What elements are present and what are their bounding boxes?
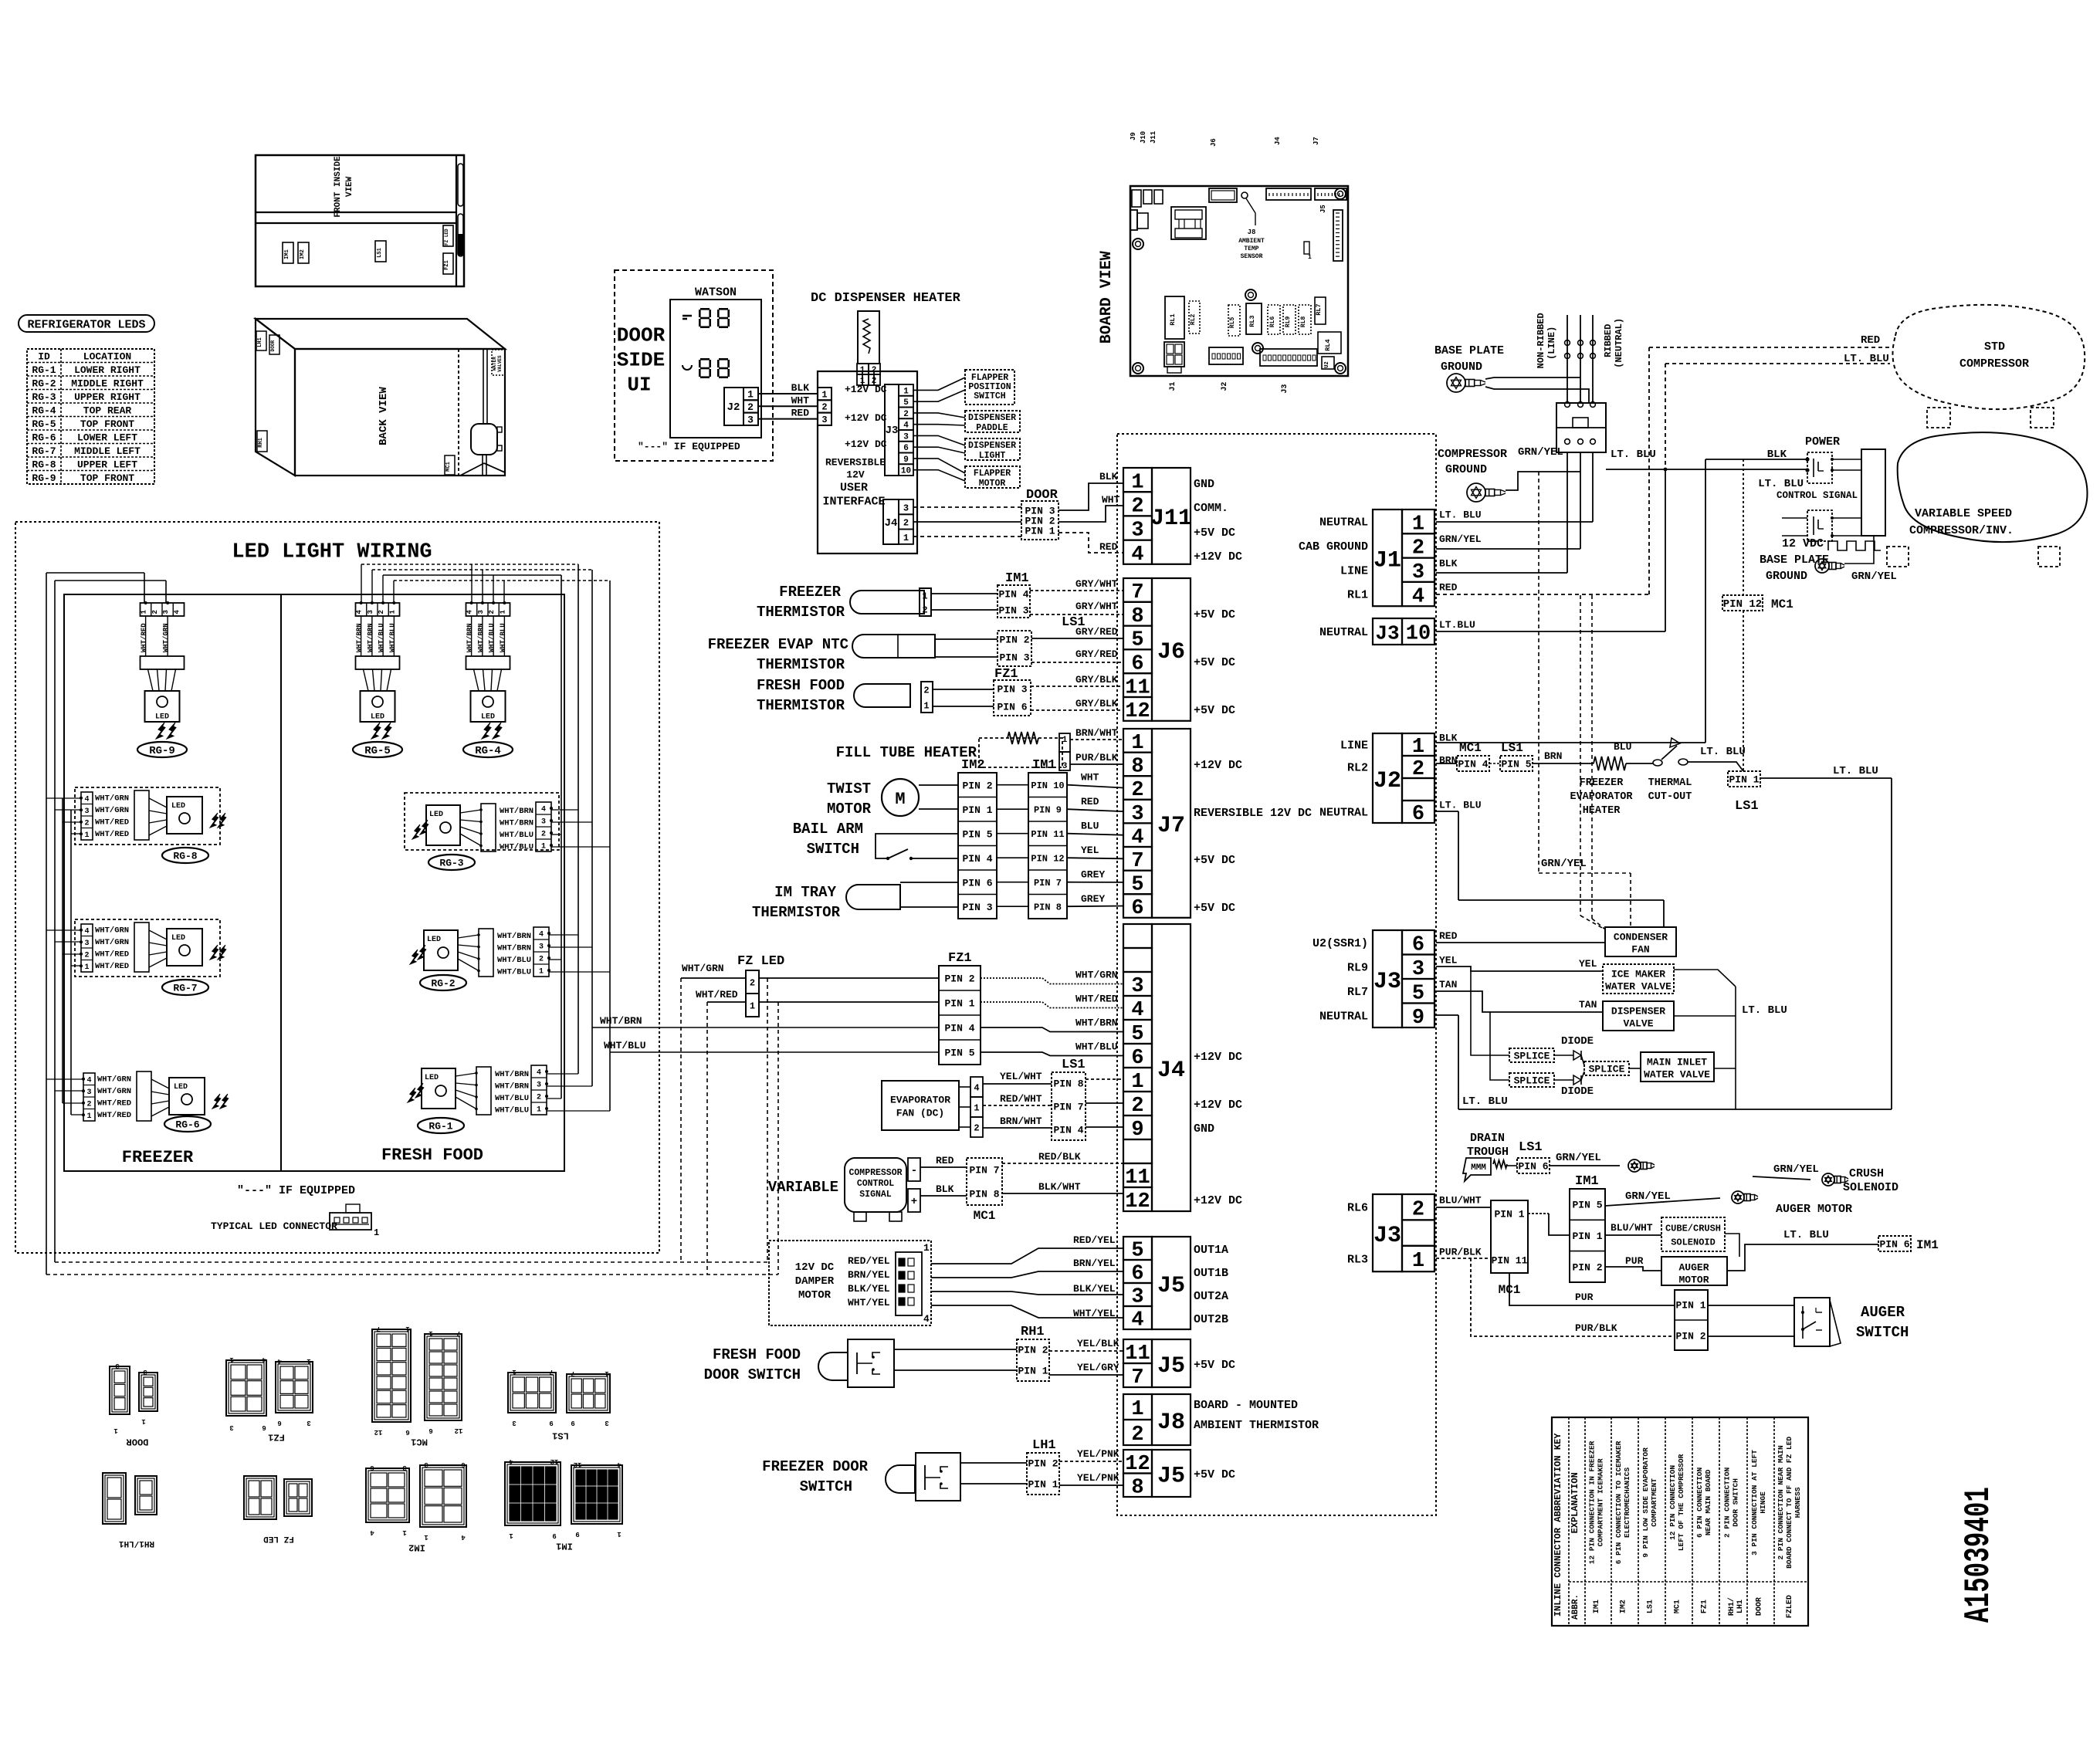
wire J2 pin1 BLK [1436,742,1705,743]
svg-text:PIN 1: PIN 1 [1729,774,1759,786]
back view cabinet [256,319,505,349]
refrigerator LEDs table title [19,315,154,332]
connector J4 user interface [883,499,899,544]
wires freezer thermistor to J6 [931,593,997,594]
wire J1 pin3 BLK [1436,572,1567,574]
svg-text:1: 1 [388,609,396,614]
wires to splices [1471,971,1509,1055]
svg-text:RG-8: RG-8 [32,459,56,470]
wires IM1 to J7 [1067,785,1123,788]
svg-text:MC1: MC1 [445,462,452,472]
svg-text:WHT/RED: WHT/RED [97,1099,131,1109]
svg-text:FRESH FOOD: FRESH FOOD [381,1146,483,1165]
svg-text:LED: LED [427,936,441,944]
svg-text:2: 2 [1131,1095,1143,1118]
svg-text:RL2: RL2 [1347,762,1368,775]
connector J1 [1373,509,1402,606]
svg-text:1: 1 [747,389,754,401]
svg-text:J3: J3 [1281,384,1289,394]
svg-text:LED: LED [171,802,185,811]
svg-text:RG-7: RG-7 [173,983,197,994]
svg-text:2: 2 [1131,1424,1143,1447]
svg-text:3: 3 [1131,520,1143,543]
valve return wires [1674,970,1736,987]
svg-text:PADDLE: PADDLE [976,423,1008,433]
LED assembly RG-2 [424,930,458,970]
wire heater to J3 [862,371,863,385]
svg-text:CAB GROUND: CAB GROUND [1299,540,1368,554]
svg-text:PIN 2: PIN 2 [1572,1261,1602,1273]
svg-text:SIGNAL: SIGNAL [859,1190,892,1200]
svg-text:6: 6 [1131,897,1143,920]
svg-text:INTERFACE: INTERFACE [822,495,885,508]
svg-text:3: 3 [229,1424,233,1431]
svg-text:IM TRAY: IM TRAY [774,884,836,901]
svg-text:FLAPPER: FLAPPER [974,469,1011,479]
inline connector IM1 [505,1462,561,1525]
svg-text:PIN 3: PIN 3 [962,902,992,913]
12V DC damper motor box [769,1241,931,1325]
back view label RH1 [257,431,267,452]
svg-text:RG-2: RG-2 [431,978,455,990]
svg-text:J5: J5 [1157,1273,1185,1299]
svg-text:ICE MAKER: ICE MAKER [1611,969,1665,980]
svg-text:SWITCH: SWITCH [1856,1324,1909,1341]
svg-text:2: 2 [821,402,827,413]
svg-text:WHT/GRN: WHT/GRN [95,938,129,947]
svg-text:4: 4 [356,609,364,614]
board view J8 ambient temp sensor [1241,192,1248,198]
wires to RG-3 RG-2 RG-1 pins [551,809,578,811]
svg-text:1: 1 [374,1227,379,1238]
svg-text:WHT/BLU: WHT/BLU [488,623,496,652]
svg-text:2 PIN CONNECTION NEAR MAIN: 2 PIN CONNECTION NEAR MAIN [1777,1445,1785,1560]
svg-text:WHT/BRN: WHT/BRN [477,623,485,652]
svg-text:IM1: IM1 [1032,758,1056,773]
svg-text:LED: LED [371,713,384,722]
svg-text:2: 2 [1131,496,1143,519]
svg-text:4: 4 [1131,543,1143,567]
connector J11 [1123,468,1152,492]
svg-text:WHT/BLU: WHT/BLU [495,1106,529,1115]
svg-text:PIN 2: PIN 2 [1028,1458,1058,1470]
svg-text:9 PIN LOW SIDE EVAPORATOR: 9 PIN LOW SIDE EVAPORATOR [1641,1447,1650,1558]
svg-text:2: 2 [151,610,159,614]
LT BLU rail down right side [1891,778,1892,1109]
svg-text:EXPLANATION: EXPLANATION [1570,1472,1580,1533]
svg-text:BLK: BLK [791,382,810,394]
svg-text:DOOR: DOOR [126,1436,149,1447]
svg-text:4: 4 [1131,1309,1143,1332]
svg-text:PIN 6: PIN 6 [1879,1239,1909,1251]
svg-text:1: 1 [821,389,827,400]
svg-text:J7: J7 [1157,813,1185,839]
svg-text:BRN/WHT: BRN/WHT [1075,727,1118,739]
variable speed compressor inverter [1861,449,1885,536]
svg-text:WATSON: WATSON [695,286,737,299]
svg-text:IM1: IM1 [1593,1600,1601,1613]
auger switch [1794,1298,1830,1346]
svg-text:OUT2A: OUT2A [1194,1290,1228,1303]
connector J3 SSR [1373,930,1402,1027]
svg-text:BLK/YEL: BLK/YEL [1073,1283,1116,1295]
svg-text:WHT/RED: WHT/RED [95,818,129,828]
svg-text:J8: J8 [1248,229,1256,236]
svg-text:DOOR SWITCH: DOOR SWITCH [704,1366,801,1383]
svg-text:4: 4 [923,1313,930,1325]
svg-text:WHT/BRN: WHT/BRN [497,932,531,941]
svg-text:WHT/RED: WHT/RED [95,950,129,960]
svg-text:WHT/BRN: WHT/BRN [495,1070,529,1079]
heater connector 1 2 [857,364,869,374]
connector J8 [1123,1394,1152,1420]
svg-text:LS1: LS1 [1062,1058,1086,1072]
svg-text:AUGER: AUGER [1678,1262,1709,1274]
svg-text:3: 3 [477,610,485,614]
svg-text:(NEUTRAL): (NEUTRAL) [1614,318,1624,368]
svg-text:4: 4 [1131,999,1143,1022]
svg-text:PUR/BLK: PUR/BLK [1439,1247,1482,1258]
connector J3 user interface [885,384,899,476]
svg-text:UPPER LEFT: UPPER LEFT [77,459,137,470]
MC1 connector right [1491,1200,1528,1273]
svg-text:6: 6 [1131,1047,1143,1070]
svg-text:WHT/YEL: WHT/YEL [1073,1308,1116,1319]
svg-text:+5V DC: +5V DC [1194,1468,1235,1481]
svg-text:LOCATION: LOCATION [83,350,131,362]
wire J3 pin10 to LT BLU node [1665,469,1666,631]
board view relay RL1 [1165,296,1184,339]
svg-text:4: 4 [974,1082,979,1093]
wires IM2 to IM1 [997,784,1028,786]
svg-text:J2: J2 [1221,382,1229,391]
svg-text:9: 9 [903,455,909,465]
svg-text:BAIL ARM: BAIL ARM [793,821,863,838]
svg-text:UPPER RIGHT: UPPER RIGHT [74,391,141,403]
wires freezer evap to J6 [935,638,997,640]
svg-text:1: 1 [541,843,546,851]
svg-text:IM2: IM2 [1620,1600,1628,1613]
svg-text:RG-8: RG-8 [173,851,197,862]
svg-text:PIN 1: PIN 1 [1018,1366,1048,1377]
svg-text:WHT/BRN: WHT/BRN [600,1015,642,1027]
svg-text:1: 1 [1131,1071,1143,1094]
svg-text:PIN 1: PIN 1 [1572,1231,1602,1242]
board view usb connector [1130,210,1137,230]
svg-text:J10: J10 [1140,131,1147,144]
svg-text:THERMISTOR: THERMISTOR [757,604,845,621]
svg-text:TAN: TAN [1439,979,1457,990]
svg-text:RH1/LH1: RH1/LH1 [119,1539,155,1548]
svg-text:GROUND: GROUND [1445,463,1487,476]
svg-text:COMPARTMENT: COMPARTMENT [1650,1478,1658,1527]
svg-text:RG-9: RG-9 [149,745,175,757]
svg-text:OUT2B: OUT2B [1194,1313,1228,1326]
svg-text:J4: J4 [1157,1058,1185,1084]
svg-text:FREEZER: FREEZER [779,584,841,601]
svg-text:WHT/BLU: WHT/BLU [500,843,533,852]
svg-text:+5V DC: +5V DC [1194,902,1235,915]
svg-text:BRN/WHT: BRN/WHT [1000,1115,1042,1127]
svg-text:WHT/RED: WHT/RED [1075,994,1118,1005]
flapper motor box [965,466,1020,488]
svg-text:-: - [911,1165,917,1177]
svg-text:BLK: BLK [936,1183,954,1195]
svg-text:3 PIN CONNECTION AT LEFT: 3 PIN CONNECTION AT LEFT [1750,1450,1759,1556]
svg-text:J3: J3 [886,425,899,437]
PIN 12 MC1 box [1722,595,1763,611]
svg-text:3: 3 [541,818,546,827]
svg-text:PIN 1: PIN 1 [1494,1209,1524,1220]
svg-text:3: 3 [1062,762,1068,771]
svg-text:TROUGH: TROUGH [1467,1146,1509,1159]
svg-text:6 PIN CONNECTION TO ICEMAKER: 6 PIN CONNECTION TO ICEMAKER [1614,1440,1623,1564]
svg-text:4: 4 [84,795,89,804]
svg-text:BLK: BLK [1439,557,1458,569]
svg-text:WATER VALVE: WATER VALVE [1605,981,1672,993]
svg-text:MOTOR: MOTOR [979,479,1006,489]
svg-text:2: 2 [1412,1198,1424,1221]
svg-text:COMM.: COMM. [1194,502,1228,515]
svg-text:RG-5: RG-5 [364,745,391,757]
svg-text:RH1/: RH1/ [1727,1597,1736,1616]
wires from left buses to freezer LEDs [46,797,81,799]
connector J5 freezer door [1123,1450,1152,1474]
svg-text:IM1: IM1 [284,249,290,259]
svg-text:WHT: WHT [791,394,810,406]
svg-text:PUR: PUR [1625,1255,1644,1267]
svg-text:WHT/BLU: WHT/BLU [497,956,531,965]
svg-text:RED/YEL: RED/YEL [848,1255,890,1267]
svg-text:+12V DC: +12V DC [1194,550,1242,564]
svg-text:PIN 4: PIN 4 [1458,759,1488,770]
svg-text:PIN 3: PIN 3 [998,605,1028,617]
svg-text:J9: J9 [1130,132,1137,140]
svg-text:DISPENSER: DISPENSER [968,413,1016,423]
svg-text:REVERSIBLE 12V DC: REVERSIBLE 12V DC [1194,807,1312,820]
svg-text:6: 6 [277,1419,281,1427]
svg-text:+5V DC: +5V DC [1194,1359,1235,1372]
svg-text:3: 3 [903,432,909,442]
svg-text:1: 1 [1412,1250,1424,1273]
svg-text:PIN 4: PIN 4 [962,853,992,865]
svg-text:1: 1 [86,1112,91,1121]
svg-text:WHT/GRN: WHT/GRN [1075,970,1118,981]
inline connector LS1 [508,1373,556,1413]
svg-text:3: 3 [903,503,909,513]
svg-text:CONTROL: CONTROL [857,1179,894,1189]
svg-text:RED/BLK: RED/BLK [1038,1151,1081,1163]
svg-text:7: 7 [1131,1366,1143,1390]
LED wiring right vertical buses [561,575,562,1099]
svg-text:GRN/YEL: GRN/YEL [1518,446,1563,459]
svg-text:NEAR MAIN BOARD: NEAR MAIN BOARD [1704,1469,1712,1535]
svg-text:RG-5: RG-5 [32,418,56,430]
svg-text:1: 1 [424,1533,428,1541]
connector J7 [1123,729,1152,753]
svg-text:LS1: LS1 [377,248,383,258]
svg-text:YEL: YEL [1579,958,1597,970]
svg-text:INLINE CONNECTOR ABBREVIATION: INLINE CONNECTOR ABBREVIATION KEY [1553,1433,1563,1617]
svg-text:OUT1A: OUT1A [1194,1244,1228,1257]
svg-text:+12V DC: +12V DC [845,384,887,395]
svg-text:J6: J6 [1157,639,1185,665]
svg-text:12 VDC: 12 VDC [1782,537,1824,550]
svg-text:J11: J11 [1150,506,1192,532]
svg-text:FZ LED: FZ LED [444,229,449,245]
svg-text:THERMAL: THERMAL [1648,777,1692,789]
svg-text:RL1: RL1 [1347,589,1368,602]
svg-text:12V DC: 12V DC [795,1261,835,1274]
svg-text:IM1: IM1 [1916,1238,1939,1252]
main inlet water valve box [1641,1052,1714,1082]
svg-text:RED: RED [791,408,810,419]
svg-text:HARNESS: HARNESS [1793,1487,1802,1518]
svg-text:2: 2 [750,977,755,988]
svg-text:FZLED: FZLED [1786,1595,1794,1618]
svg-text:LINE: LINE [1340,564,1368,577]
svg-text:11: 11 [1125,676,1150,699]
board view relay RL5 [1228,305,1240,336]
wires J2 to user interface BLK WHT RED [758,393,818,394]
svg-text:12V: 12V [846,469,865,481]
svg-text:1: 1 [1131,1398,1143,1421]
svg-text:4: 4 [903,421,909,431]
svg-text:J5: J5 [1157,1463,1185,1489]
svg-text:RED: RED [936,1155,954,1166]
svg-text:1: 1 [750,1000,755,1011]
svg-text:U2: U2 [1324,361,1330,367]
front view connector FZ1 [443,253,453,274]
svg-text:GRN/YEL: GRN/YEL [1851,570,1897,583]
svg-text:LT. BLU: LT. BLU [1742,1004,1787,1017]
back view label WATER VALVES [492,350,505,375]
svg-text:EVAPORATOR: EVAPORATOR [890,1095,950,1106]
svg-text:GRN/YEL: GRN/YEL [1556,1152,1601,1164]
svg-text:WHT/BLU: WHT/BLU [497,968,531,977]
LED assembly RG-8 [75,787,220,845]
wires fresh food door switch to J5 [894,1349,1017,1350]
svg-text:IM1: IM1 [1005,571,1029,586]
svg-text:3: 3 [512,1419,516,1427]
svg-text:WHT/RED: WHT/RED [95,962,129,971]
svg-text:LT. BLU: LT. BLU [1758,478,1804,490]
svg-text:FAN: FAN [1631,944,1649,956]
LED light wiring inner box [64,594,564,1171]
board view relay RL2 [1189,301,1200,333]
svg-text:1: 1 [1131,471,1143,494]
svg-text:DOOR: DOOR [617,323,666,347]
svg-text:2: 2 [537,1094,541,1102]
svg-text:PUR/BLK: PUR/BLK [1575,1322,1617,1334]
svg-text:SWITCH: SWITCH [807,841,859,858]
svg-text:MC1: MC1 [411,1436,428,1447]
svg-text:GRN/YEL: GRN/YEL [1541,858,1587,870]
svg-text:GRN/YEL: GRN/YEL [1773,1163,1819,1176]
svg-text:RH1: RH1 [1021,1325,1045,1339]
svg-text:LT. BLU: LT. BLU [1700,746,1746,758]
LED assembly RG-9 [141,603,185,616]
svg-text:RG-6: RG-6 [175,1119,199,1131]
svg-text:1: 1 [84,963,89,972]
svg-text:RG-6: RG-6 [32,432,56,443]
svg-text:NEUTRAL: NEUTRAL [1319,516,1368,530]
svg-text:3: 3 [605,1419,608,1427]
svg-text:AMBIENT THERMISTOR: AMBIENT THERMISTOR [1194,1419,1319,1432]
svg-text:1: 1 [402,1528,407,1536]
svg-text:MMM: MMM [1471,1163,1486,1173]
svg-text:6: 6 [262,1424,266,1431]
svg-text:VALVES: VALVES [497,355,503,372]
LED assembly RG-7 [75,919,220,977]
svg-text:FREEZER EVAP NTC: FREEZER EVAP NTC [708,636,848,653]
svg-text:MIDDLE RIGHT: MIDDLE RIGHT [71,377,144,389]
svg-text:6: 6 [1412,803,1424,826]
svg-text:DOOR SWITCH: DOOR SWITCH [1732,1478,1740,1527]
svg-text:J6: J6 [1210,138,1218,147]
svg-text:1: 1 [141,609,148,614]
svg-text:J3: J3 [1373,1223,1401,1249]
svg-text:PIN 5: PIN 5 [1501,759,1531,770]
freezer evaporator heater circuit [1457,756,1489,771]
svg-text:+12V DC: +12V DC [1194,1051,1242,1064]
svg-text:RED: RED [1439,930,1458,942]
dispenser valve box [1603,1001,1674,1031]
svg-text:2: 2 [903,410,909,419]
svg-text:REFRIGERATOR LEDS: REFRIGERATOR LEDS [27,318,145,331]
svg-text:RG-9: RG-9 [32,472,56,484]
svg-text:CRUSH: CRUSH [1849,1167,1884,1180]
svg-text:GRY/WHT: GRY/WHT [1075,578,1118,590]
svg-text:10: 10 [1406,623,1431,646]
svg-text:4: 4 [537,1069,541,1078]
svg-text:6 PIN CONNECTION: 6 PIN CONNECTION [1695,1468,1704,1539]
svg-text:BRN: BRN [1544,750,1562,762]
svg-text:RG-7: RG-7 [32,445,56,457]
svg-text:RED: RED [1081,796,1099,807]
board view relay RL7 [1315,297,1326,324]
svg-text:8: 8 [1131,605,1143,628]
wires twist motor to IM2 [919,784,958,786]
svg-text:RED: RED [1099,541,1118,553]
svg-text:6: 6 [405,1428,409,1436]
svg-text:1: 1 [1412,513,1424,536]
svg-text:RL3: RL3 [1248,315,1256,327]
svg-text:MC1: MC1 [1771,598,1793,611]
svg-text:GRY/RED: GRY/RED [1075,626,1118,638]
svg-text:IM1: IM1 [1575,1174,1599,1189]
svg-text:LT. BLU: LT. BLU [1833,765,1878,777]
svg-text:4: 4 [466,609,474,614]
svg-text:3: 3 [86,1088,91,1097]
svg-text:IM2: IM2 [300,249,306,259]
svg-text:DC DISPENSER HEATER: DC DISPENSER HEATER [811,291,961,306]
svg-text:10: 10 [901,467,911,476]
svg-text:PIN 2: PIN 2 [1675,1331,1705,1342]
svg-text:DOOR: DOOR [270,340,276,352]
svg-text:WHT/BRN: WHT/BRN [466,623,474,652]
svg-text:WHT/BRN: WHT/BRN [500,819,533,828]
svg-text:2: 2 [1412,537,1424,560]
svg-text:TWIST: TWIST [827,780,871,797]
svg-text:CONTROL SIGNAL: CONTROL SIGNAL [1777,490,1858,501]
svg-text:J5: J5 [1319,205,1327,213]
svg-text:LS1: LS1 [1647,1600,1655,1613]
wires FZ LED to FZ1 [759,977,939,979]
svg-text:LT.BLU: LT.BLU [1439,619,1475,631]
svg-text:1: 1 [499,609,506,614]
svg-text:+5V DC: +5V DC [1194,608,1235,621]
